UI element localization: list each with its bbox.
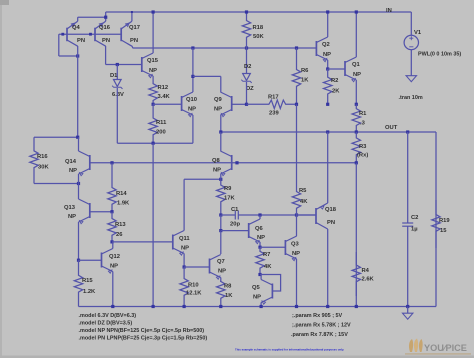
wire Q14 collector riser: [78, 137, 80, 151]
svg-text:R16: R16: [37, 154, 48, 160]
transistor Q16: [94, 28, 96, 42]
svg-text:R15: R15: [82, 278, 93, 284]
svg-text:Q6: Q6: [255, 226, 264, 232]
wire D1 to R11 gnd wire: [117, 142, 193, 144]
resistor R14: [108, 163, 116, 212]
node dot Q17 emitter rail: [131, 11, 133, 13]
resistor R19: [432, 200, 440, 248]
svg-text:Q4: Q4: [72, 25, 81, 31]
transistor Q9: [231, 96, 233, 111]
svg-text:D1: D1: [110, 73, 118, 79]
wire C2 bottom: [407, 226, 409, 306]
node dot R6 top: [295, 46, 298, 49]
node dot Q6 base node: [219, 229, 222, 232]
svg-text:NP: NP: [214, 107, 222, 113]
transistor Q6: [248, 223, 250, 238]
wire R19 riser: [435, 132, 437, 307]
svg-text:1.2K: 1.2K: [83, 289, 96, 295]
node dot OUT-C2: [406, 130, 409, 133]
svg-text:Q3: Q3: [291, 242, 300, 248]
svg-text:PWL(0 0 10m 35): PWL(0 0 10m 35): [418, 52, 461, 58]
svg-text:DZ: DZ: [246, 86, 254, 92]
wire R9C1 to Q6 base node: [220, 215, 222, 231]
svg-text:Q10: Q10: [186, 97, 197, 103]
svg-text:2.6K: 2.6K: [362, 277, 375, 283]
svg-text:Q8: Q8: [212, 158, 221, 164]
wire Q12 collector riser: [112, 242, 114, 249]
resistor R11: [149, 104, 157, 143]
wire Q6 emitter fall: [259, 242, 261, 247]
svg-text:Q12: Q12: [109, 254, 120, 260]
transistor Q5 (mirrored): [271, 284, 273, 299]
wire Q8 collector riser: [220, 132, 222, 151]
wire D2 anode: [246, 48, 248, 74]
svg-text:NP: NP: [68, 214, 76, 220]
svg-text:17K: 17K: [224, 196, 235, 202]
wire Q1 emitter fall: [355, 80, 357, 104]
node dot rail C2: [406, 305, 409, 308]
node dot Q14 collector: [76, 136, 79, 139]
svg-text:6.3V: 6.3V: [112, 92, 124, 98]
wire C1 left: [221, 214, 236, 216]
wire bus Vbias y48: [133, 47, 317, 49]
wire OUT: [221, 131, 436, 133]
transistor Q15: [141, 57, 143, 72]
wire Q11E to Q7 base: [184, 266, 209, 268]
svg-text:Q5: Q5: [252, 285, 261, 291]
wire Q17 emitter riser: [131, 12, 133, 21]
wire base loop right: [59, 55, 78, 57]
svg-text:Q18: Q18: [325, 207, 337, 213]
svg-text:PN: PN: [130, 38, 138, 44]
wire Q13 base to R14R13: [90, 211, 112, 213]
node dot Q2E-R2-Q1B: [326, 67, 329, 70]
resistor R5: [292, 104, 300, 215]
zener diode D2: [243, 74, 251, 81]
node dot R7 bottom: [258, 273, 261, 276]
svg-text:30K: 30K: [38, 165, 49, 171]
svg-text:R18: R18: [253, 25, 264, 31]
wire V1 riser: [410, 12, 412, 35]
wire Q7 emitter fall: [220, 278, 222, 283]
wire Q3 collector riser: [296, 215, 298, 236]
svg-text:NP: NP: [213, 168, 221, 174]
resistor R7: [256, 247, 264, 274]
svg-text:R2: R2: [331, 78, 338, 84]
svg-text:R13: R13: [115, 222, 126, 228]
wire Q5 emitter fall: [260, 303, 262, 307]
node dot Q4 collector tie: [76, 54, 79, 57]
svg-text:15: 15: [440, 228, 447, 234]
wire C2 top: [407, 132, 409, 223]
wire ground rail: [79, 306, 437, 308]
wire Q9 emitter fall: [220, 115, 222, 132]
wire Q2 collector riser: [327, 12, 329, 37]
wire Q11 emitter fall: [183, 254, 185, 268]
svg-text:NP: NP: [149, 68, 157, 74]
node dot rail R10: [183, 305, 186, 308]
svg-text:R3: R3: [359, 144, 367, 150]
wire Q4-Q16 emitters: [78, 16, 106, 18]
svg-text:R5: R5: [299, 188, 307, 194]
transistor Q10: [181, 96, 183, 111]
svg-text:.model 6.3V D(BV=6.3): .model 6.3V D(BV=6.3): [79, 313, 137, 319]
svg-text:R1: R1: [359, 111, 367, 117]
wire Q11C to Q8E: [184, 178, 221, 180]
wire Q12 base: [79, 259, 102, 261]
wire Q2E to Q1 base: [328, 68, 345, 70]
transistor Q2: [315, 41, 317, 56]
transistor Q14 (mirrored): [89, 155, 91, 170]
wire Q9 base right: [232, 103, 247, 105]
wire Q10 collector riser: [192, 48, 194, 92]
wire Q4 collector column: [77, 46, 79, 137]
svg-text:PN: PN: [327, 220, 335, 226]
svg-text:200: 200: [156, 130, 166, 136]
transistor Q4: [66, 28, 68, 42]
node dot D1 top: [116, 63, 119, 66]
wire base bus PNP mirror: [59, 33, 121, 35]
resistor R12: [149, 82, 157, 104]
wire Q10C-Q9C: [193, 75, 221, 77]
wire IN rail top: [106, 11, 412, 13]
node dot Q16 base: [89, 33, 92, 36]
node dot R1 top: [355, 103, 358, 106]
svg-text:PN: PN: [77, 38, 85, 44]
svg-text:.model PN LPNP(BF=25 Cje=.3p C: .model PN LPNP(BF=25 Cje=.3p Cjc=1.5p Rb…: [79, 336, 208, 342]
svg-text:NP: NP: [253, 295, 261, 301]
wire Q16 collector column: [105, 46, 107, 65]
node dot R7 top: [258, 246, 261, 249]
wire feedback: [90, 162, 357, 164]
node dot Q2 collector rail: [326, 10, 329, 13]
transistor Q13 (mirrored): [89, 203, 91, 218]
resistor R17 horizontal: [247, 100, 297, 108]
node dot rail Q12E: [111, 305, 114, 308]
node dot Q8E-R9: [219, 178, 222, 181]
transistor Q3: [284, 240, 286, 255]
wire C1 right: [238, 214, 316, 216]
wire Q2 emitter fall: [327, 60, 329, 69]
svg-text:1µ: 1µ: [411, 227, 418, 233]
wire node to Q7 collector: [220, 231, 222, 254]
svg-text:20p: 20p: [230, 222, 240, 228]
node dot Q15 collector rail: [152, 10, 155, 13]
node dot R3-R4: [355, 161, 358, 164]
node dot R11 bottom: [152, 142, 155, 145]
svg-text:(Rx): (Rx): [357, 153, 368, 159]
svg-text:Q13: Q13: [64, 205, 76, 211]
wire Q15 emitter to R12: [152, 76, 154, 82]
wire R16 top: [34, 136, 78, 138]
node dot R13 bottom: [110, 240, 113, 243]
wire D1 anode: [116, 65, 118, 80]
wire Q5 collector riser: [260, 275, 262, 280]
wire Q18 collector fall: [327, 229, 329, 307]
node dot R18 top: [245, 10, 248, 13]
node dot rail gnd column: [152, 305, 155, 308]
zener diode D1: [114, 80, 122, 87]
transistor Q11: [172, 235, 174, 250]
wire Q16C to Q15 base: [106, 64, 142, 66]
wire D1 cathode down: [116, 88, 118, 143]
wire R12R11 to Q10 base: [153, 103, 182, 105]
node dot R12-R11: [152, 103, 155, 106]
wire Q12 emitter fall: [112, 272, 114, 307]
svg-text:R9: R9: [224, 186, 232, 192]
svg-text:R6: R6: [301, 68, 309, 74]
capacitor C1: [234, 211, 236, 220]
node dot rail R8: [219, 305, 222, 308]
wire Q6 collector riser: [259, 215, 261, 219]
svg-text:.param Rx 7.87K ; 15V: .param Rx 7.87K ; 15V: [291, 332, 348, 338]
svg-text:PN: PN: [102, 38, 110, 44]
wire Q10 emitter fall: [192, 115, 194, 143]
svg-text:NP: NP: [181, 246, 189, 252]
resistor R18: [242, 12, 250, 48]
svg-text:3.4K: 3.4K: [158, 94, 171, 100]
svg-text:D2: D2: [244, 64, 251, 70]
wire Q17 collector to bus: [131, 46, 134, 48]
resistor R4: [352, 252, 360, 296]
svg-text:R4: R4: [362, 268, 370, 274]
resistor R6: [292, 48, 300, 104]
node dot Q16 emitter: [104, 16, 107, 19]
svg-text:This example schematic is supp: This example schematic is supplied for i…: [235, 347, 344, 351]
svg-text:R8: R8: [224, 284, 232, 290]
wire Q18 emitter riser: [327, 132, 329, 203]
svg-text:4K: 4K: [264, 264, 272, 270]
svg-text:12.1K: 12.1K: [186, 291, 202, 297]
transistor Q12: [101, 253, 103, 268]
resistor R16: [30, 137, 38, 183]
resistor R2: [324, 69, 332, 104]
node dot OUT left: [219, 130, 222, 133]
svg-text:50K: 50K: [253, 34, 264, 40]
node dot rail Q18C: [326, 305, 329, 308]
wire Q13 emitter fall: [78, 222, 80, 260]
node dot Q11E-R10: [183, 265, 186, 268]
svg-text:R11: R11: [156, 120, 167, 126]
svg-text:Q17: Q17: [129, 25, 140, 31]
node dot rail Q5E: [260, 305, 263, 308]
capacitor C2: [402, 222, 413, 224]
wire V1 to ground: [410, 50, 412, 76]
node dot Q6C: [258, 213, 261, 216]
svg-text:C2: C2: [411, 215, 418, 221]
node dot Q8 base: [235, 161, 238, 164]
svg-text:1K: 1K: [301, 78, 309, 84]
svg-text:R19: R19: [439, 218, 450, 224]
node dot R6 bottom: [295, 103, 298, 106]
wire Q5 base loop: [260, 275, 281, 292]
wire Q9 collector riser: [220, 76, 222, 92]
wire R13bot to Q11 base: [112, 241, 173, 243]
svg-text:.model DZ D(BV=3.5): .model DZ D(BV=3.5): [79, 321, 133, 327]
svg-text:V1: V1: [414, 30, 422, 36]
svg-text:R14: R14: [116, 191, 127, 197]
svg-text:R7: R7: [263, 252, 270, 258]
wire Q1 collector riser: [355, 12, 357, 57]
wire Q3 emitter fall: [296, 259, 298, 307]
resistor R8: [217, 282, 225, 307]
svg-text:OUT: OUT: [385, 125, 398, 131]
svg-text:;.param Rx 905 ; 5V: ;.param Rx 905 ; 5V: [292, 313, 343, 319]
svg-text:Q11: Q11: [179, 236, 190, 242]
node dot Q4 base: [61, 33, 64, 36]
wire Q16 emitter riser: [105, 12, 107, 21]
node dot rail R4: [355, 305, 358, 308]
svg-text:NP: NP: [110, 264, 118, 270]
wire Q4 emitter riser: [77, 17, 79, 21]
svg-text:R10: R10: [188, 283, 199, 289]
node dot R14-R13: [110, 210, 113, 213]
wire Q6 base: [221, 230, 249, 232]
svg-text:Q14: Q14: [65, 159, 77, 165]
svg-text:;.param Rx 5.78K ; 12V: ;.param Rx 5.78K ; 12V: [292, 323, 351, 329]
node dot Q10-Q9 collectors: [191, 75, 194, 78]
svg-text:1.9K: 1.9K: [117, 201, 130, 207]
svg-text:1K: 1K: [225, 293, 233, 299]
transistor Q1: [344, 61, 346, 76]
YOUSPICE logo: [405, 339, 471, 355]
svg-text:NP: NP: [69, 168, 77, 174]
node dot Q1 collector rail: [355, 10, 358, 13]
wire Q3 base: [260, 246, 285, 248]
node dot rail Q3E: [295, 305, 298, 308]
wire Q18 base: [297, 214, 317, 216]
node dot OUT-Q18E: [326, 130, 329, 133]
wire Q8 emitter fall: [220, 174, 222, 179]
svg-text:NP: NP: [292, 251, 300, 257]
svg-text:4K: 4K: [300, 199, 308, 205]
transistor Q7: [209, 259, 211, 274]
resistor R3: [352, 132, 360, 163]
svg-text:YOU∕PICE: YOU∕PICE: [424, 343, 467, 353]
svg-text:.tran 10m: .tran 10m: [399, 95, 423, 101]
node dot OUT-R1: [355, 130, 358, 133]
wire ground column: [152, 143, 154, 306]
svg-text:R17: R17: [268, 95, 279, 101]
svg-text:2K: 2K: [332, 89, 340, 95]
svg-text:NP: NP: [353, 72, 361, 78]
transistor Q17: [120, 28, 122, 42]
resistor R10: [180, 267, 188, 307]
node dot R2 bottom: [326, 103, 329, 106]
svg-text:239: 239: [269, 111, 279, 117]
resistor R1: [352, 104, 360, 132]
ground V1: [406, 76, 416, 82]
node dot R18 bottom: [245, 46, 248, 49]
node dot R5 bottom: [295, 213, 298, 216]
node dot Q12 base: [77, 259, 80, 262]
svg-text:Q7: Q7: [217, 259, 225, 265]
svg-text:IN: IN: [386, 8, 392, 14]
wire D2 cathode: [246, 82, 248, 104]
wire Q14E to Q13C: [78, 174, 80, 199]
svg-text:26: 26: [116, 232, 123, 238]
node dot D2 bottom: [245, 103, 248, 106]
svg-text:R12: R12: [158, 85, 169, 91]
node dot R14 top: [110, 161, 113, 164]
wire Q15 collector riser: [152, 12, 154, 53]
resistor R9: [217, 179, 225, 215]
resistor R13: [108, 212, 116, 242]
svg-text:NP: NP: [257, 235, 265, 241]
transistor Q8 (mirrored): [231, 155, 233, 170]
node dot R9-C1: [219, 213, 222, 216]
node dot Q14 emitter: [77, 182, 80, 185]
voltage source V1: [404, 35, 418, 49]
svg-text:Q2: Q2: [322, 42, 330, 48]
svg-text:Q9: Q9: [214, 97, 223, 103]
resistor R15: [74, 260, 82, 306]
svg-text:NP: NP: [188, 107, 196, 113]
node dot Q10 collector bus: [191, 46, 194, 49]
wire base loop down: [58, 34, 60, 56]
svg-text:NP: NP: [323, 52, 331, 58]
transistor Q18 (PNP): [315, 208, 317, 224]
wire Q11 collector riser: [183, 179, 185, 230]
svg-text:Q1: Q1: [352, 62, 361, 68]
svg-text:Q16: Q16: [99, 25, 111, 31]
svg-text:.model NP NPN(BF=125 Cje=.5p C: .model NP NPN(BF=125 Cje=.5p Cjc=.5p Rb=…: [79, 328, 205, 334]
wire R16 bottom: [34, 183, 79, 185]
svg-text:NP: NP: [218, 269, 226, 275]
svg-text:.3: .3: [360, 121, 366, 127]
wire R4 column: [355, 163, 357, 307]
ground flag bottom: [407, 307, 409, 314]
svg-text:Q15: Q15: [147, 58, 159, 64]
svg-text:C1: C1: [231, 207, 239, 213]
